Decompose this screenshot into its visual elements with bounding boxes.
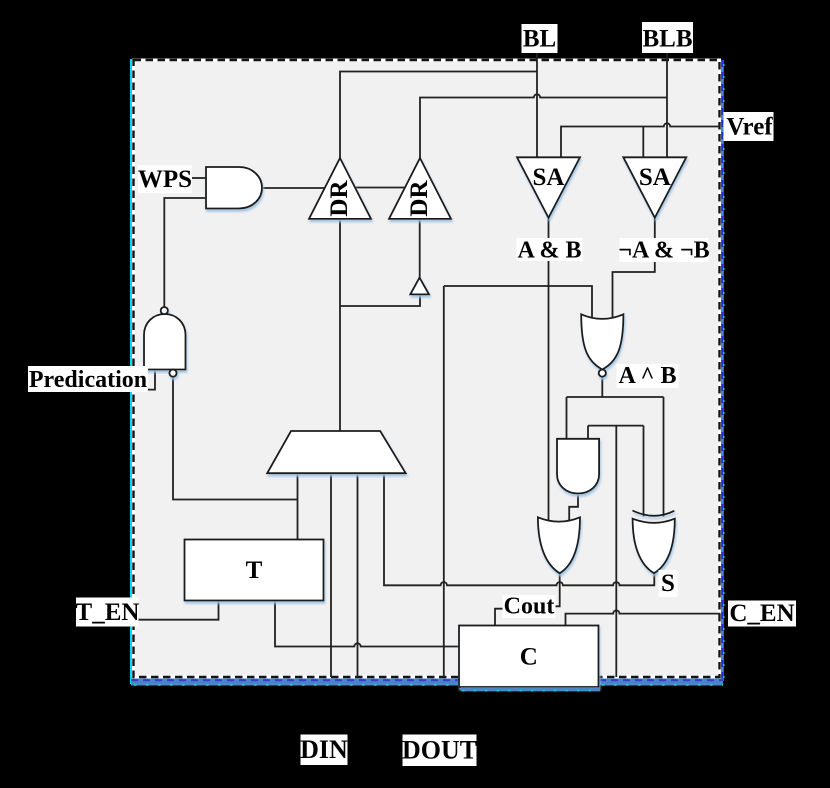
svg-text:SA: SA [639,164,671,191]
svg-text:DR: DR [326,180,353,217]
wire A ^ B to AND left input [566,397,568,439]
svg-text:C_EN: C_EN [729,600,794,627]
wire buffer output to DR2 [419,219,421,278]
sense amp SA2 triangle [623,157,686,218]
box C bottom blue shadow [461,687,600,691]
node WPS label [138,165,192,193]
wire branch to buffer input [340,294,420,306]
wire trapezoid leg 1 to T box [297,473,299,539]
svg-text:T_EN: T_EN [76,599,140,626]
svg-text:C: C [520,644,538,671]
svg-text:S: S [661,570,675,597]
panel selection accents: left cyan line [130,59,132,684]
svg-text:BL: BL [523,25,556,52]
node T_EN label [76,598,139,627]
wire S net: XOR output left to trapezoid with hops [384,473,654,585]
wire Vref branch to SA2 left input [642,127,644,158]
node Predication label [28,366,148,392]
node ¬A & ¬B label [620,238,709,262]
panel accent right blue [720,60,724,681]
xor gate (S) body [633,519,675,574]
panel accent bottom blue band [131,679,723,686]
xor gate upper arc [633,511,675,516]
driver DR2 triangle [389,158,451,219]
svg-text:DR: DR [406,180,433,217]
node BLB label [642,22,693,53]
wire Cin vertical to bottom border [615,426,617,677]
wire BLB vertical (BLB label to SA2 right input) [666,46,668,158]
box C [459,626,599,688]
node Vref label [724,112,774,141]
wire SA1 output down to OR gate left input (A & B net) [548,218,550,522]
wire AND output jog to OR right input [569,494,578,522]
bubble nand top input [161,307,168,314]
buffer triangle [410,278,429,295]
node S label [659,570,678,597]
svg-text:Cout: Cout [504,594,555,620]
wire T output to C box with hop [275,601,461,647]
wire SA2 output to NOR right input [613,218,655,319]
wire DR2 output up to BLB with hop over BL [420,94,667,158]
wire Predication label bracket [148,369,155,389]
wire trapezoid leg 3 to bottom border [357,473,359,677]
wire T_EN to T box [138,601,219,620]
wire NOR left input feed horizontal [444,286,592,319]
wire DR1 to DR2 link [355,187,405,189]
or gate (Cout) [538,517,580,573]
wire Cin to AND right input [587,426,589,439]
svg-text:DOUT: DOUT [402,736,477,765]
node BL label [522,24,558,53]
nor gate (A ^ B) [581,314,623,369]
cell panel fill [133,60,720,678]
svg-text:Vref: Vref [726,114,773,141]
wire DR1 output down to trapezoid top [339,219,341,431]
wire vertical from NOR feed down to bottom border [443,286,445,677]
wire Cin to XOR left input [643,426,645,517]
node A ^ B label [617,364,679,388]
svg-text:Predication: Predication [29,367,147,393]
wire AND gate input 2 down to NAND top bubble [164,198,206,307]
svg-text:SA: SA [533,164,565,191]
mux trapezoid [267,431,406,473]
svg-text:T: T [246,557,263,584]
svg-text:¬A & ¬B: ¬A & ¬B [618,238,709,264]
and gate (bell, middle) [557,439,599,494]
wire WPS to AND gate input 1 [192,177,206,179]
svg-text:A ^ B: A ^ B [619,363,677,389]
wire OR output down to Cout label [555,573,560,606]
node C_EN label [728,601,796,627]
node DOUT label [403,735,477,767]
wire trapezoid leg 2 to bottom border [330,473,332,677]
driver DR1 triangle [309,158,371,219]
panel dashed border (white backing + black dashes) [134,60,720,677]
box T [185,540,324,601]
sense amp SA1 triangle [517,157,580,218]
wire C_EN from C box to right border with hop [566,610,721,625]
wire A ^ B to XOR right input [663,397,665,517]
node A & B label [517,238,583,261]
svg-text:WPS: WPS [138,166,192,193]
bubble nor output [599,370,606,377]
and gate U1 (WPS) [206,167,262,209]
wire NAND output down and right to trapezoid leg [173,377,298,500]
wire Vref horizontal to SA1 right input with hop over BLB [561,123,721,157]
node DIN label [301,735,348,766]
node Cout label [503,595,556,618]
wire Cout label left bracket to C box [495,609,503,626]
wire BL vertical (BL label to SA1 left input) [536,46,538,158]
wire NOR output stub (A ^ B) [601,377,603,397]
wire AND gate output to DR1 [262,187,325,189]
wire A ^ B split bar [567,396,664,398]
svg-text:DIN: DIN [300,735,348,764]
nand gate (Predication) bell [144,314,186,370]
wire Cin horizontal feed [588,425,644,427]
svg-text:BLB: BLB [642,25,692,52]
wire DR1 output up to BL [340,72,537,159]
svg-text:A & B: A & B [517,238,581,264]
bubble nand bottom output [169,370,176,377]
